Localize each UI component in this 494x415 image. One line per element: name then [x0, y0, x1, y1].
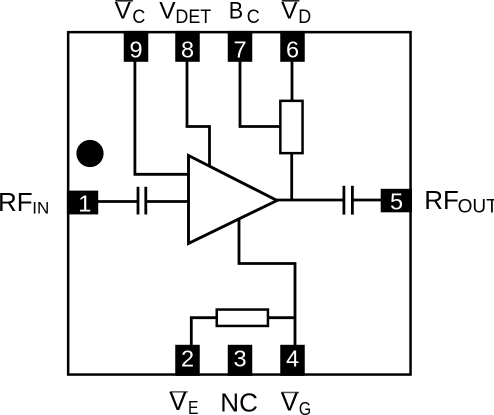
- pin 1: [67, 191, 98, 215]
- pin 4: [280, 345, 305, 376]
- wire pin9 to amplifier: [135, 61, 190, 174]
- svg-text:9: 9: [129, 37, 142, 63]
- wire R2 right to pin4 riser: [269, 316, 295, 319]
- svg-text:V: V: [115, 0, 132, 24]
- pin 1 index dot: [76, 140, 103, 167]
- svg-text:C: C: [247, 5, 260, 27]
- wire amplifier bottom tap to pin4: [239, 218, 295, 346]
- svg-text:4: 4: [286, 346, 299, 372]
- pin 5: [381, 189, 412, 213]
- svg-text:NC: NC: [220, 388, 258, 415]
- wire pin6 to R1 top: [291, 61, 294, 101]
- pin 9: [124, 31, 149, 62]
- svg-text:1: 1: [78, 190, 91, 216]
- resistor R1: [280, 101, 302, 153]
- wire C1 to amplifier input: [147, 200, 190, 203]
- svg-text:RF: RF: [0, 187, 33, 217]
- label VE overline: [170, 391, 188, 393]
- capacitor C2 output: [342, 186, 345, 215]
- label VD overline: [282, 0, 300, 2]
- label VC overline: [115, 0, 133, 2]
- svg-text:IN: IN: [32, 199, 49, 218]
- svg-text:DET: DET: [175, 5, 211, 27]
- pin 3: [228, 345, 253, 376]
- svg-text:7: 7: [233, 37, 246, 63]
- svg-text:D: D: [298, 5, 311, 27]
- package outline: [68, 32, 410, 374]
- pin 2: [175, 345, 200, 376]
- wire R2 left to pin2: [191, 318, 216, 345]
- op-amp U1 amplifier triangle: [189, 156, 278, 244]
- wire pin8 to amplifier top edge: [187, 61, 210, 168]
- resistor R2: [217, 310, 268, 326]
- svg-text:2: 2: [181, 346, 194, 372]
- wire pin7 to R1 left side: [240, 61, 280, 127]
- svg-text:3: 3: [233, 346, 246, 372]
- svg-text:V: V: [169, 386, 187, 415]
- svg-text:8: 8: [181, 37, 194, 63]
- pin 8: [175, 31, 200, 62]
- wire R1 bottom to output net: [290, 153, 293, 200]
- wire C2 to pin5: [354, 199, 382, 202]
- svg-text:C: C: [132, 5, 145, 27]
- svg-text:OUT: OUT: [458, 197, 494, 218]
- svg-text:V: V: [159, 0, 176, 24]
- svg-text:G: G: [299, 398, 311, 415]
- svg-text:5: 5: [390, 188, 403, 214]
- wire pin1 to C1: [98, 200, 137, 203]
- svg-text:RF: RF: [424, 185, 459, 215]
- svg-text:V: V: [281, 0, 298, 24]
- pin 7: [228, 31, 253, 62]
- svg-text:6: 6: [286, 37, 299, 63]
- capacitor C1 input: [137, 187, 140, 215]
- wire amplifier output to C2: [276, 199, 343, 202]
- svg-text:B: B: [229, 0, 243, 24]
- pin 6: [280, 31, 305, 62]
- svg-text:E: E: [188, 397, 198, 415]
- svg-text:V: V: [281, 386, 299, 415]
- label VG overline: [281, 392, 299, 394]
